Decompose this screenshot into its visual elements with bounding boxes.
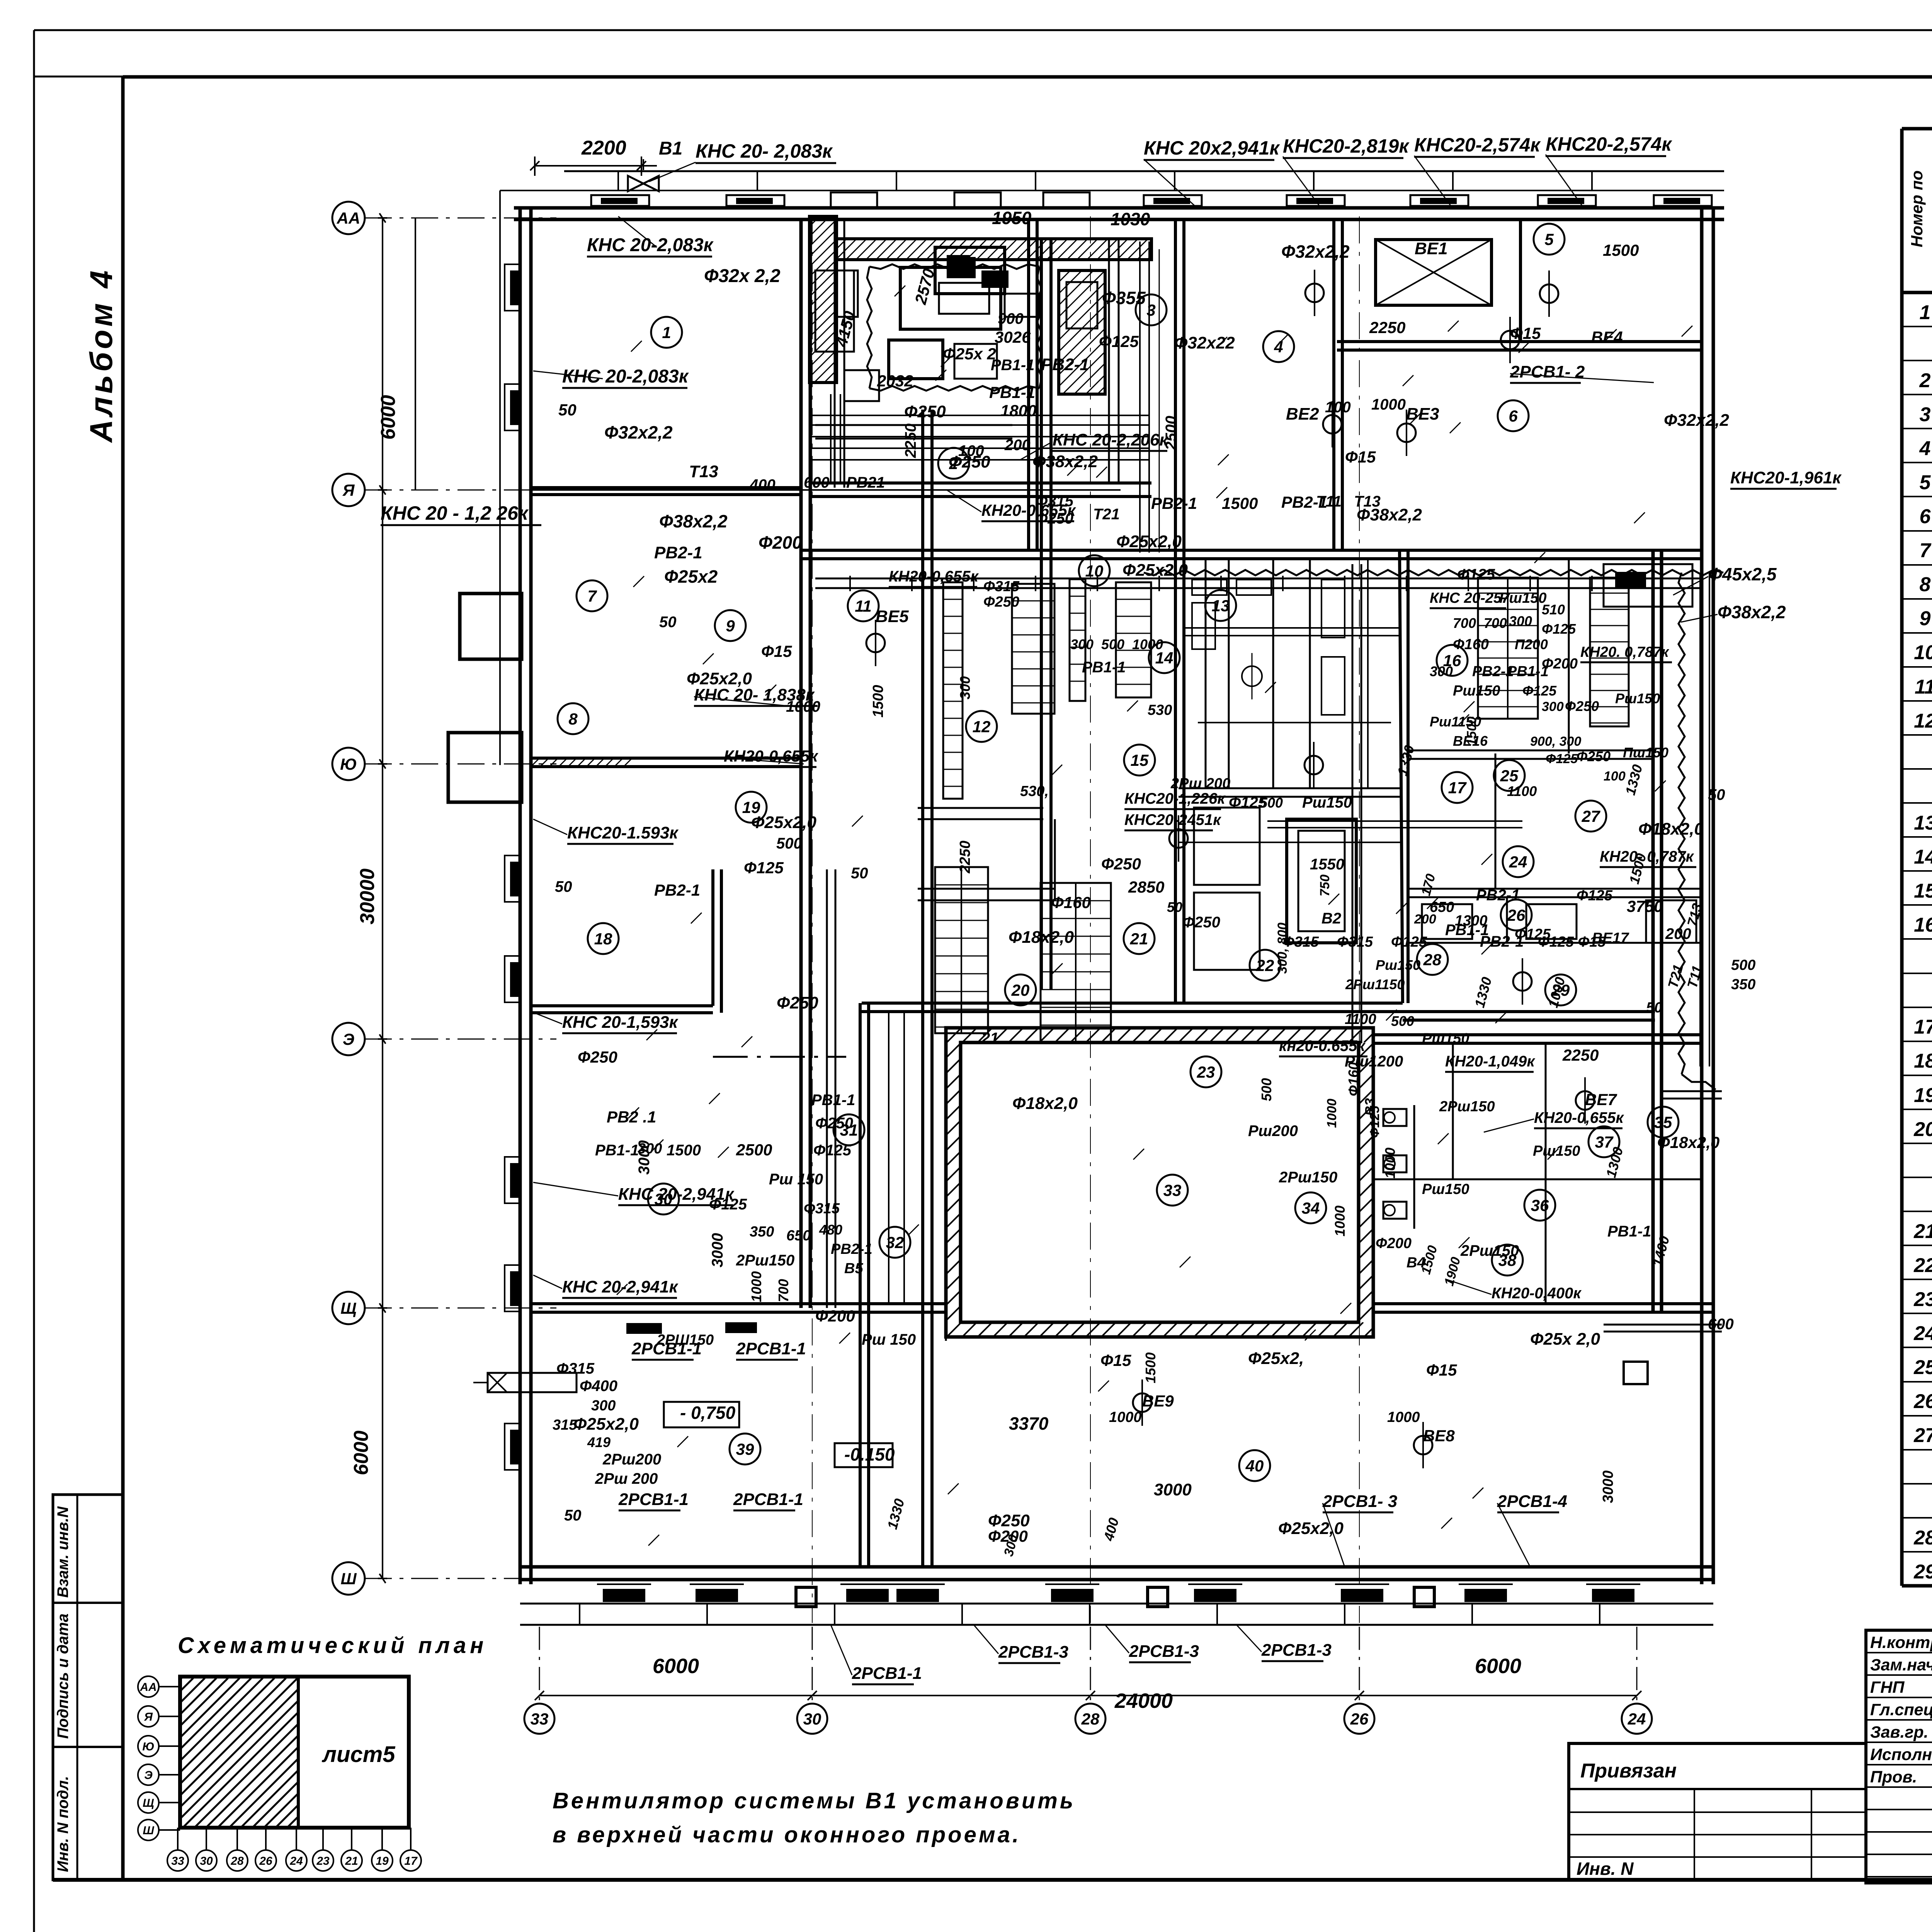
svg-text:Ф15: Ф15 — [1510, 324, 1541, 342]
svg-text:2850: 2850 — [1128, 878, 1164, 896]
wall x3630 — [1400, 550, 1403, 1003]
svg-text:Ш: Ш — [143, 1824, 154, 1837]
svg-text:2РСВ1-1: 2РСВ1-1 — [852, 1664, 922, 1683]
svg-text:21: 21 — [1130, 930, 1148, 948]
svg-text:1800: 1800 — [1000, 401, 1036, 420]
svg-text:Ф32х 2,2: Ф32х 2,2 — [704, 266, 781, 286]
svg-text:2РСВ1-1: 2РСВ1-1 — [733, 1490, 803, 1509]
svg-text:Ф250: Ф250 — [815, 1115, 853, 1132]
svg-text:Исполн.: Исполн. — [1870, 1745, 1932, 1764]
svg-text:Ф25х2,0: Ф25х2,0 — [751, 813, 816, 832]
inner right wall of lower block — [1651, 550, 1655, 1312]
svg-text:2Рш150: 2Рш150 — [1460, 1242, 1519, 1259]
svg-text:480: 480 — [819, 1222, 842, 1238]
svg-text:1500: 1500 — [870, 685, 886, 718]
svg-text:1030: 1030 — [1111, 209, 1150, 229]
svg-text:Ф38х2,2: Ф38х2,2 — [1718, 602, 1786, 622]
wall at axis Щ left — [531, 1302, 862, 1305]
svg-text:30000: 30000 — [356, 869, 379, 925]
locker bands room 12 upper — [943, 579, 1151, 799]
svg-text:Э: Э — [144, 1769, 153, 1782]
svg-text:Ф355: Ф355 — [1102, 288, 1146, 308]
outer wall bottom with sill band — [520, 1567, 1713, 1625]
svg-text:500: 500 — [1260, 795, 1283, 811]
svg-text:700: 700 — [1453, 615, 1476, 631]
svg-text:Ф400: Ф400 — [580, 1378, 617, 1395]
svg-text:300, 800: 300, 800 — [1275, 923, 1290, 974]
svg-text:300: 300 — [957, 676, 973, 699]
svg-text:6: 6 — [1920, 505, 1931, 528]
wall below hall y3460 to bottom — [945, 1337, 947, 1341]
svg-text:КНС 20- 2,083к: КНС 20- 2,083к — [696, 140, 833, 162]
fixtures rooms 13-15 — [1182, 580, 1399, 723]
svg-text:510: 510 — [1542, 602, 1565, 617]
svg-text:Альбом 4: Альбом 4 — [84, 267, 119, 443]
svg-text:В5: В5 — [844, 1260, 863, 1277]
svg-text:24: 24 — [1628, 1710, 1646, 1728]
svg-text:2250: 2250 — [957, 840, 973, 874]
vent chamber inner equipment — [835, 257, 1039, 401]
svg-text:3000: 3000 — [709, 1233, 726, 1267]
svg-text:9: 9 — [1920, 607, 1931, 630]
corridor supply duct — [815, 576, 1700, 591]
svg-text:Подпись и дата: Подпись и дата — [54, 1614, 71, 1739]
svg-text:Ф25х 2,0: Ф25х 2,0 — [1530, 1330, 1600, 1349]
svg-text:Гл.спец.: Гл.спец. — [1870, 1701, 1932, 1719]
svg-text:2Рш 200: 2Рш 200 — [595, 1470, 658, 1487]
svg-text:Ф250: Ф250 — [777, 993, 818, 1012]
svg-text:Ф15: Ф15 — [761, 642, 792, 660]
vertical wall x2230 lower — [859, 1003, 862, 1567]
svg-text:50: 50 — [558, 401, 577, 419]
svg-text:600: 600 — [1708, 1316, 1734, 1333]
svg-text:2500: 2500 — [736, 1141, 772, 1159]
svg-text:19: 19 — [1914, 1084, 1932, 1107]
locker band room 16 — [1478, 578, 1538, 719]
svg-text:Ф25х2,0: Ф25х2,0 — [1116, 532, 1182, 551]
fixtures rooms 24-26 — [1422, 564, 1696, 943]
svg-text:8: 8 — [1920, 573, 1931, 596]
wall at axis Ю — [531, 757, 801, 760]
svg-text:РВ2-1: РВ2-1 — [831, 1241, 872, 1257]
svg-text:350: 350 — [750, 1224, 774, 1240]
svg-text:10: 10 — [1085, 562, 1104, 580]
svg-text:2РСВ1-1: 2РСВ1-1 — [618, 1490, 689, 1509]
svg-text:Ф315: Ф315 — [556, 1360, 595, 1377]
svg-text:50: 50 — [1708, 786, 1725, 803]
svg-text:7: 7 — [1920, 539, 1932, 562]
svg-text:Ф15: Ф15 — [1100, 1351, 1131, 1369]
svg-text:Ф32х22: Ф32х22 — [1174, 333, 1235, 352]
svg-text:Ф125: Ф125 — [1577, 888, 1613, 904]
svg-text:15: 15 — [1914, 880, 1932, 902]
wall y2600 — [862, 1002, 1403, 1005]
svg-text:КНС 20-2,941к: КНС 20-2,941к — [562, 1277, 679, 1296]
svg-text:10: 10 — [1914, 641, 1932, 664]
svg-text:Рш 150: Рш 150 — [769, 1171, 823, 1188]
svg-text:- 0,750: - 0,750 — [680, 1403, 736, 1423]
svg-text:Я: Я — [144, 1711, 153, 1723]
svg-text:Ф125: Ф125 — [813, 1142, 852, 1159]
svg-text:39: 39 — [736, 1440, 754, 1458]
svg-text:900: 900 — [998, 310, 1024, 327]
leader lines — [533, 155, 1718, 1675]
svg-text:Ф250: Ф250 — [904, 402, 946, 421]
svg-text:2: 2 — [1919, 369, 1931, 392]
top parapet band — [564, 171, 1724, 190]
svg-text:26: 26 — [1350, 1710, 1369, 1728]
svg-text:28: 28 — [1913, 1527, 1932, 1549]
svg-text:32: 32 — [886, 1233, 904, 1252]
svg-text:КНС20-2,574к: КНС20-2,574к — [1546, 133, 1672, 155]
svg-text:В1: В1 — [659, 138, 682, 159]
svg-text:РВ1-1: РВ1-1 — [1082, 659, 1126, 676]
svg-text:Ф200: Ф200 — [1376, 1235, 1412, 1252]
svg-text:Ф125: Ф125 — [744, 859, 784, 877]
svg-text:6000: 6000 — [1475, 1655, 1521, 1678]
svg-text:Рш150: Рш150 — [1376, 957, 1420, 973]
svg-text:ВЕ7: ВЕ7 — [1585, 1090, 1617, 1109]
svg-text:22: 22 — [1913, 1254, 1932, 1277]
svg-text:Инв. N подл.: Инв. N подл. — [54, 1776, 71, 1872]
svg-text:50: 50 — [1167, 899, 1182, 915]
explication table rows text — [1913, 301, 1932, 1583]
svg-text:36: 36 — [1531, 1196, 1549, 1214]
svg-text:315: 315 — [553, 1417, 577, 1433]
svg-text:15: 15 — [1131, 751, 1149, 769]
window marks left wall — [505, 264, 520, 1470]
svg-text:650: 650 — [786, 1228, 811, 1244]
svg-text:КНС 20-1,593к: КНС 20-1,593к — [562, 1013, 679, 1032]
wall x3050 — [1174, 219, 1177, 1003]
svg-text:АА: АА — [139, 1681, 156, 1694]
svg-text:100: 100 — [1604, 769, 1626, 784]
svg-text:Ф250: Ф250 — [1101, 855, 1141, 873]
svg-text:1: 1 — [662, 323, 671, 342]
privyazan box — [1569, 1743, 1866, 1880]
svg-text:Т13: Т13 — [689, 462, 718, 481]
svg-text:РВ21: РВ21 — [846, 474, 885, 491]
svg-text:530,: 530, — [1020, 783, 1049, 799]
outer wall left — [500, 190, 531, 1584]
room 33 hall walls hatched — [666, 1028, 1652, 1337]
svg-text:40: 40 — [1245, 1457, 1264, 1475]
svg-text:50: 50 — [1646, 1000, 1662, 1016]
svg-text:Ф250: Ф250 — [1565, 698, 1599, 714]
walls right of hall rooms 34-38 — [1373, 1035, 1713, 1312]
svg-text:1000: 1000 — [1332, 1206, 1348, 1236]
wavy heat line T11 — [1144, 570, 1723, 575]
svg-text:1100: 1100 — [1507, 783, 1537, 799]
svg-text:РВ1-1: РВ1-1 — [595, 1142, 639, 1159]
svg-text:РВ2-1: РВ2-1 — [1476, 887, 1520, 904]
svg-text:Ф200: Ф200 — [815, 1307, 855, 1325]
svg-text:2Рш1150: 2Рш1150 — [1345, 976, 1405, 992]
vent chamber wall x2672 — [1027, 219, 1030, 550]
left stamp boxes — [53, 1495, 123, 1880]
svg-text:РВ2-1: РВ2-1 — [654, 543, 702, 562]
svg-text:2500: 2500 — [1163, 416, 1180, 451]
svg-text:1500: 1500 — [1603, 241, 1639, 259]
svg-text:Ф160: Ф160 — [1345, 1062, 1361, 1096]
dim 2200 and B1 valve — [530, 156, 659, 191]
svg-text:КН20. 0,787к: КН20. 0,787к — [1580, 644, 1669, 660]
window vent marks top wall — [591, 192, 1712, 208]
svg-text:Ф125: Ф125 — [1546, 752, 1578, 766]
svg-text:5: 5 — [1920, 471, 1931, 494]
svg-text:Ф25х2,: Ф25х2, — [1248, 1349, 1304, 1368]
svg-text:В2: В2 — [1321, 910, 1341, 927]
svg-text:50: 50 — [564, 1507, 582, 1524]
svg-text:РВ2-1: РВ2-1 — [1281, 493, 1327, 511]
svg-text:РВ2-1: РВ2-1 — [1151, 494, 1197, 512]
svg-text:Ф125: Ф125 — [1457, 566, 1495, 583]
svg-text:1000: 1000 — [1132, 636, 1163, 652]
svg-text:Рш150: Рш150 — [1302, 794, 1352, 811]
vent chamber hatched insulation band — [643, 216, 1168, 383]
radiators below wall Shch — [626, 1322, 757, 1334]
svg-text:КН20-1,049к: КН20-1,049к — [1445, 1053, 1535, 1070]
svg-text:5: 5 — [1544, 230, 1554, 248]
svg-text:Ф18х2,0: Ф18х2,0 — [1009, 928, 1074, 947]
svg-text:7: 7 — [587, 587, 597, 605]
svg-text:26: 26 — [1913, 1390, 1932, 1413]
svg-text:23: 23 — [1197, 1063, 1215, 1081]
heat channel serrated line right side — [1679, 573, 1685, 1074]
svg-text:24: 24 — [1913, 1322, 1932, 1345]
svg-text:6000: 6000 — [377, 395, 400, 440]
svg-text:17: 17 — [404, 1855, 418, 1867]
svg-text:700: 700 — [776, 1279, 791, 1302]
svg-text:Номер по: Номер по — [1908, 170, 1926, 247]
svg-text:АА: АА — [337, 209, 361, 227]
svg-text:2РСВ1-3: 2РСВ1-3 — [1261, 1641, 1332, 1660]
svg-text:КНС20-1,961к: КНС20-1,961к — [1730, 468, 1842, 487]
svg-text:Ф32х2,2: Ф32х2,2 — [1664, 411, 1729, 430]
svg-text:РВ1-1: РВ1-1 — [811, 1092, 855, 1109]
svg-text:Ф250: Ф250 — [578, 1048, 617, 1066]
VE1 crossed rect — [1376, 240, 1492, 305]
svg-text:ГНП: ГНП — [1870, 1678, 1905, 1697]
svg-text:Ф18х2,0: Ф18х2,0 — [1638, 820, 1704, 838]
svg-text:Ф250: Ф250 — [1577, 748, 1611, 764]
svg-text:-0.150: -0.150 — [844, 1444, 895, 1464]
svg-text:16: 16 — [1914, 914, 1932, 936]
svg-text:11: 11 — [1915, 676, 1932, 698]
wall x3460 vertical rooms 4/6 — [1332, 219, 1335, 550]
svg-text:Ф250: Ф250 — [1182, 914, 1220, 931]
wall at axis Э left — [531, 1004, 713, 1007]
svg-text:13: 13 — [1914, 812, 1932, 834]
svg-text:2200: 2200 — [581, 137, 626, 159]
svg-text:50: 50 — [659, 614, 677, 631]
svg-text:Ф200: Ф200 — [1542, 656, 1578, 672]
locker bands room 20 lower — [935, 867, 1111, 1043]
left dimension lines — [350, 213, 415, 1583]
svg-text:РВ2-1: РВ2-1 — [654, 881, 700, 899]
svg-text:КНС20-2451к: КНС20-2451к — [1124, 811, 1221, 828]
svg-text:Ю: Ю — [142, 1740, 154, 1753]
svg-text:2250: 2250 — [1369, 318, 1405, 337]
svg-text:КН20-0,400к: КН20-0,400к — [1492, 1285, 1582, 1302]
svg-text:кн20-0.655к: кн20-0.655к — [1279, 1037, 1366, 1054]
svg-text:Рш 150: Рш 150 — [862, 1331, 916, 1348]
walls rooms 28,29 area — [1408, 897, 1702, 943]
svg-text:КНС 20-2,206к: КНС 20-2,206к — [1053, 430, 1169, 449]
svg-text:Ф125: Ф125 — [1099, 332, 1139, 350]
svg-text:РВ2 .1: РВ2 .1 — [607, 1108, 656, 1126]
svg-text:22: 22 — [1256, 956, 1274, 975]
svg-text:27: 27 — [1913, 1424, 1932, 1447]
small dimension ticks — [617, 286, 1692, 1546]
svg-text:Ф315: Ф315 — [1036, 493, 1074, 510]
svg-text:29: 29 — [1913, 1561, 1932, 1583]
svg-text:ВЕ2: ВЕ2 — [1286, 405, 1319, 423]
svg-text:300: 300 — [1070, 636, 1094, 652]
svg-text:Ф18х2,0: Ф18х2,0 — [1012, 1094, 1078, 1113]
svg-text:23: 23 — [1913, 1288, 1932, 1311]
svg-text:2РСВ1-1: 2РСВ1-1 — [736, 1339, 806, 1358]
main duct risers — [811, 240, 1151, 1567]
svg-text:2250: 2250 — [1562, 1046, 1599, 1064]
svg-text:3026: 3026 — [995, 328, 1031, 346]
svg-text:9: 9 — [726, 617, 735, 635]
svg-text:Ф125: Ф125 — [1542, 621, 1576, 637]
svg-text:Ф200: Ф200 — [759, 532, 802, 553]
svg-text:1550: 1550 — [1310, 856, 1344, 873]
svg-text:КНС20-2,574к: КНС20-2,574к — [1414, 134, 1541, 156]
svg-text:Ф125: Ф125 — [1522, 683, 1557, 699]
svg-text:3000: 3000 — [1154, 1480, 1192, 1499]
svg-text:100: 100 — [1325, 399, 1351, 416]
svg-text:26: 26 — [1507, 906, 1526, 924]
svg-text:Привязан: Привязан — [1580, 1760, 1677, 1782]
explication table grid — [1902, 129, 1932, 1586]
svg-text:2Рш150: 2Рш150 — [1439, 1099, 1495, 1115]
svg-text:200: 200 — [1004, 437, 1031, 454]
svg-text:КНС 20 - 1,2 26к: КНС 20 - 1,2 26к — [381, 502, 529, 524]
svg-text:КНС20-1.593к: КНС20-1.593к — [567, 823, 679, 842]
svg-text:25: 25 — [1500, 767, 1519, 785]
svg-text:50: 50 — [555, 878, 572, 895]
svg-text:1000: 1000 — [1325, 1099, 1339, 1128]
svg-text:Ф160: Ф160 — [1051, 893, 1091, 912]
partition walls rooms 13-15 — [1179, 559, 1403, 797]
svg-text:Ф125: Ф125 — [709, 1196, 747, 1213]
duct protrusion left bottom — [473, 1373, 577, 1392]
svg-text:27: 27 — [1582, 807, 1600, 825]
svg-text:Пш150: Пш150 — [1623, 745, 1668, 760]
svg-text:33: 33 — [531, 1710, 549, 1728]
svg-text:18: 18 — [1914, 1050, 1932, 1072]
svg-text:25: 25 — [1913, 1356, 1932, 1379]
svg-text:500: 500 — [1391, 1013, 1414, 1029]
svg-text:1500: 1500 — [1464, 716, 1479, 746]
vent chamber duct outline wavy — [867, 264, 1042, 391]
partition walls rooms 17,24-27 — [1408, 559, 1702, 897]
pipes along corridor vertical — [827, 219, 1368, 1308]
svg-text:350: 350 — [1731, 976, 1755, 993]
svg-text:530: 530 — [1148, 702, 1172, 718]
svg-text:6: 6 — [1509, 407, 1518, 425]
svg-text:33: 33 — [1163, 1181, 1182, 1199]
svg-text:1000: 1000 — [1387, 1409, 1420, 1425]
svg-text:Рш150: Рш150 — [1499, 590, 1547, 606]
svg-text:419: 419 — [587, 1434, 611, 1450]
explication table header text — [1908, 156, 1932, 290]
svg-text:23: 23 — [316, 1855, 330, 1867]
duct pair x3500 — [1267, 564, 1522, 1043]
svg-text:Ф315: Ф315 — [1337, 934, 1373, 950]
svg-text:2РШ150: 2РШ150 — [656, 1332, 714, 1348]
svg-text:ВЕ4: ВЕ4 — [1591, 328, 1623, 346]
svg-text:П200: П200 — [1515, 636, 1548, 652]
svg-text:3000: 3000 — [1600, 1470, 1616, 1503]
svg-text:2Рш150: 2Рш150 — [736, 1252, 794, 1269]
svg-text:ВЕ1: ВЕ1 — [1415, 239, 1448, 258]
bottom column circles and grid lines — [524, 216, 1652, 1734]
svg-text:100: 100 — [958, 442, 984, 459]
svg-text:КНС 20-2,083к: КНС 20-2,083к — [587, 235, 714, 255]
svg-text:Ф15: Ф15 — [1426, 1361, 1457, 1379]
svg-text:Рш150: Рш150 — [1453, 683, 1500, 699]
level mark boxes — [664, 1402, 893, 1467]
svg-text:2032: 2032 — [877, 372, 913, 390]
svg-text:300: 300 — [638, 1141, 662, 1157]
svg-text:РВ2-1: РВ2-1 — [1041, 355, 1089, 374]
schematic plan rect — [33, 1677, 437, 1828]
svg-text:Вентилятор системы В1 устан: Вентилятор системы В1 установить — [553, 1788, 1075, 1813]
heating pipe T13 — [531, 489, 1121, 491]
svg-text:21: 21 — [345, 1855, 358, 1867]
svg-text:1000: 1000 — [1382, 1148, 1398, 1179]
svg-text:2Рш200: 2Рш200 — [602, 1451, 661, 1468]
svg-text:Я: Я — [342, 481, 355, 499]
svg-text:Э: Э — [343, 1030, 354, 1048]
svg-text:50: 50 — [851, 865, 868, 882]
svg-text:Ф125: Ф125 — [1515, 926, 1551, 942]
ducts room 12/20 — [918, 808, 1055, 900]
svg-text:3: 3 — [1920, 403, 1931, 426]
corridor wall vertical x2080 — [799, 219, 803, 1308]
svg-text:24: 24 — [1509, 853, 1527, 871]
svg-text:1100: 1100 — [1345, 1011, 1376, 1027]
svg-text:12: 12 — [973, 718, 991, 736]
svg-text:Ф25х2,0: Ф25х2,0 — [573, 1415, 639, 1434]
svg-text:Ф45х2,5: Ф45х2,5 — [1708, 564, 1777, 584]
svg-text:20: 20 — [1011, 981, 1030, 999]
svg-text:2250: 2250 — [902, 423, 919, 458]
svg-text:3370: 3370 — [1009, 1413, 1049, 1434]
svg-text:650: 650 — [1430, 899, 1454, 915]
svg-text:12: 12 — [1914, 710, 1932, 732]
svg-text:Ф25х2: Ф25х2 — [664, 566, 718, 587]
wall x3460-4460 y890 room6 — [1337, 340, 1702, 343]
svg-text:ВЕ3: ВЕ3 — [1406, 405, 1439, 423]
vent chamber extra equipment — [815, 247, 1221, 439]
svg-text:500: 500 — [1731, 957, 1755, 973]
svg-text:500: 500 — [776, 835, 802, 852]
svg-text:Рш200: Рш200 — [1248, 1122, 1298, 1139]
svg-text:Ф25х2,0: Ф25х2,0 — [1122, 561, 1188, 580]
svg-text:Ф38х2,2: Ф38х2,2 — [1357, 505, 1422, 524]
svg-text:Ф32х2,2: Ф32х2,2 — [1281, 241, 1350, 262]
room number circles — [558, 224, 1679, 1481]
svg-text:2Рш150: 2Рш150 — [1279, 1169, 1337, 1186]
svg-text:Ф125: Ф125 — [1367, 1105, 1382, 1138]
svg-text:Рш150: Рш150 — [1615, 690, 1660, 706]
svg-text:4: 4 — [1919, 437, 1931, 460]
